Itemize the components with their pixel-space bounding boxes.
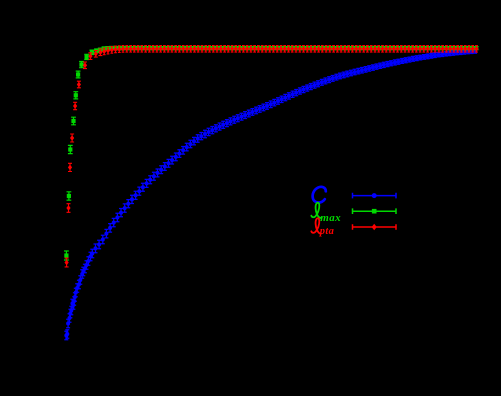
data series C (blue circles with error bars) <box>64 49 477 340</box>
legend sample line C <box>353 193 397 199</box>
legend label script C (blue) <box>313 187 326 203</box>
legend sample line l_pta <box>353 224 397 230</box>
data series l_pta (red diamonds with error bars) <box>65 46 479 267</box>
legend label l_pta (red) <box>311 218 334 237</box>
svg-text:pta: pta <box>319 226 334 237</box>
legend sample line l_max <box>353 208 397 214</box>
svg-text:max: max <box>320 212 341 224</box>
legend label l_max (green) <box>311 203 341 224</box>
data series l_max (green squares with error bars) <box>64 46 479 260</box>
